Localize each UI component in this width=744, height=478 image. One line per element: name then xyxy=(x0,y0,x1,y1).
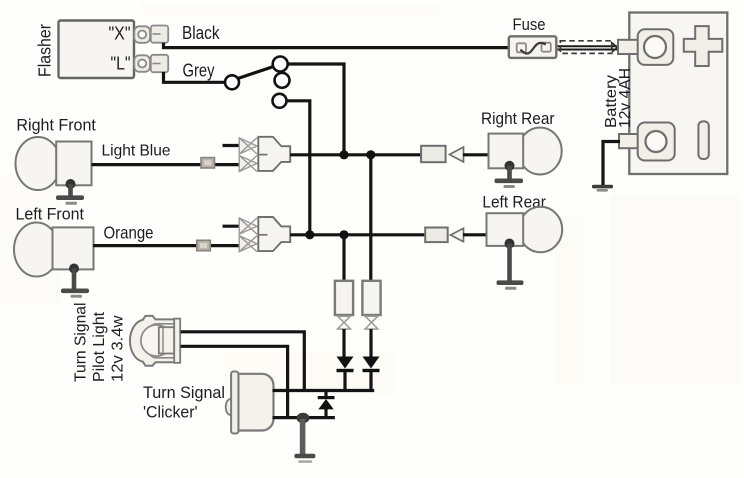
ground (left rear lamp) xyxy=(497,239,524,290)
wire connector to right rear lamp xyxy=(463,153,489,156)
lamp socket left front xyxy=(258,217,290,251)
pilot light PL1 xyxy=(130,316,180,366)
stub wire to right-front socket upper pin xyxy=(223,144,241,147)
node C junction dot xyxy=(305,230,314,239)
lamp Right Front xyxy=(16,137,92,190)
svg-text:Pilot Light: Pilot Light xyxy=(91,311,108,382)
stub wire to left-front socket upper pin xyxy=(223,225,241,228)
sleeve end crimp marks xyxy=(611,42,623,52)
bullet terminals left front xyxy=(239,218,257,252)
ground (battery) xyxy=(592,185,613,192)
wire diode D3 top to bus xyxy=(324,391,327,397)
wire node B down to right bullet connector xyxy=(369,155,372,281)
diode D3 (across clicker) xyxy=(318,396,335,409)
svg-text:Left Front: Left Front xyxy=(16,206,85,224)
wire diode D1 to clicker bus xyxy=(343,372,346,392)
lamp socket right front xyxy=(258,137,290,171)
battery negative terminal lug xyxy=(619,123,675,161)
svg-text:Turn Signal: Turn Signal xyxy=(143,384,225,402)
flasher FL1 body xyxy=(59,21,135,79)
battery positive terminal lug xyxy=(618,29,673,65)
wire diode D3 bottom to ground bus xyxy=(324,409,327,418)
node D junction dot xyxy=(339,230,348,239)
svg-text:Turn Signal: Turn Signal xyxy=(73,303,90,383)
diode D2 xyxy=(363,357,380,373)
inline connector on Light Blue wire xyxy=(201,158,215,168)
battery BT1 case xyxy=(629,13,727,175)
bullet connector (right vertical) xyxy=(362,281,380,329)
wire pilot light upper pin to clicker bus xyxy=(181,332,305,389)
svg-text:Light Blue: Light Blue xyxy=(102,143,171,160)
svg-text:'Clicker': 'Clicker' xyxy=(143,404,198,422)
wire right connector to diode D2 xyxy=(369,329,372,357)
battery plus symbol xyxy=(684,26,723,66)
connector left rear xyxy=(425,228,463,243)
bullet connector (left vertical) xyxy=(335,281,353,329)
svg-text:Grey: Grey xyxy=(183,60,216,81)
lamp Left Rear xyxy=(487,207,563,252)
ground (right front lamp) xyxy=(56,179,84,205)
wire socket to left rear connector (node C row) xyxy=(290,233,425,236)
svg-text:Black: Black xyxy=(182,22,220,43)
battery minus symbol xyxy=(698,121,708,159)
fuse F1 xyxy=(509,36,557,58)
clicker (turn signal beeper) xyxy=(226,372,274,434)
wire Orange: lamp to connector xyxy=(93,244,240,247)
wire left connector to diode D1 xyxy=(342,329,345,357)
wire node D down to left bullet connector xyxy=(342,235,345,281)
wire diode D2 to clicker bus xyxy=(369,372,372,392)
inline connector on Orange wire xyxy=(197,240,211,250)
connector right rear xyxy=(421,146,463,162)
svg-text:12v 4AH: 12v 4AH xyxy=(617,68,634,128)
wire Black: flasher X to fuse xyxy=(164,43,510,48)
svg-text:Flasher: Flasher xyxy=(35,24,55,77)
wire pilot light lower pin to ground bus xyxy=(181,346,288,416)
lamp Left Front xyxy=(14,223,94,277)
svg-text:12v 3.4w: 12v 3.4w xyxy=(110,315,127,382)
wire Light Blue: lamp to connector xyxy=(92,163,240,166)
diode D1 xyxy=(337,357,354,373)
switch S1 right contact xyxy=(273,57,288,72)
connector sleeve (dashed) xyxy=(560,41,612,54)
ground (left front lamp) xyxy=(61,264,89,298)
bullet terminals right front xyxy=(239,138,257,172)
svg-text:"L": "L" xyxy=(111,53,131,74)
wire clicker top terminal bus xyxy=(273,389,375,392)
wire battery negative to ground xyxy=(603,142,620,186)
ground (right rear lamp) xyxy=(495,161,524,188)
wire switch right contact to node A xyxy=(287,64,344,152)
svg-text:Orange: Orange xyxy=(104,223,154,243)
wire connector to left rear lamp xyxy=(463,233,487,236)
lamp Right Rear xyxy=(489,128,562,175)
wire switch left contact to node C xyxy=(286,101,310,232)
flasher X ring terminal xyxy=(134,26,150,43)
wire Grey: flasher L to switch xyxy=(164,72,225,82)
node B junction dot xyxy=(366,150,375,159)
node A junction dot xyxy=(339,150,348,159)
svg-text:Right Front: Right Front xyxy=(16,117,96,135)
wire socket to right rear connector (node A row) xyxy=(290,153,421,156)
ground (clicker) xyxy=(294,413,315,463)
switch S1 common pole xyxy=(225,75,239,89)
flasher L ring terminal xyxy=(134,55,150,72)
wire fuse to battery positive (double conductor) xyxy=(558,45,618,47)
switch S1 left contact xyxy=(273,94,287,108)
svg-text:Right Rear: Right Rear xyxy=(481,110,555,128)
flasher L spade connector xyxy=(151,55,168,72)
switch S1 arm xyxy=(238,67,273,79)
wire clicker bottom terminal bus xyxy=(273,416,335,419)
svg-text:"X": "X" xyxy=(109,23,131,44)
svg-text:Fuse: Fuse xyxy=(513,15,546,34)
switch S1 off contact xyxy=(275,73,290,88)
flasher X spade connector xyxy=(151,26,168,43)
